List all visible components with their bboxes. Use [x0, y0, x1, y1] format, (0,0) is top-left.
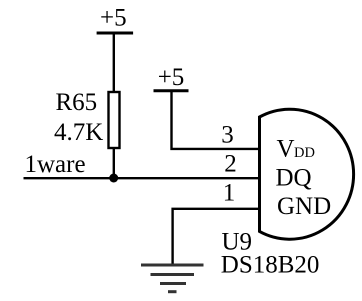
svg-text:+5: +5	[100, 5, 127, 32]
resistor R65	[109, 92, 120, 148]
ground bar 3	[160, 282, 186, 285]
svg-text:2: 2	[224, 151, 237, 178]
svg-text:4.7K: 4.7K	[54, 119, 103, 146]
junction dot	[109, 174, 118, 183]
svg-text:+5: +5	[158, 64, 185, 91]
power +5 bar symbol (VCC2)	[154, 89, 189, 92]
ground bar 1	[141, 264, 204, 267]
svg-text:3: 3	[221, 122, 234, 149]
ground bar 4	[168, 290, 177, 293]
svg-text:V: V	[277, 136, 295, 163]
IC U9 DS18B20 body	[260, 109, 354, 239]
svg-text:1: 1	[223, 180, 236, 207]
ground bar 2	[151, 273, 195, 276]
wire VCC1 to resistor R65	[113, 33, 115, 92]
power +5 bar symbol (VCC1)	[97, 32, 134, 35]
svg-text:DQ: DQ	[276, 165, 312, 192]
svg-text:R65: R65	[56, 89, 98, 116]
wire VCC2 to pin 3	[172, 91, 261, 149]
svg-text:DS18B20: DS18B20	[221, 252, 320, 279]
svg-text:1ware: 1ware	[25, 151, 86, 178]
wire R65 bottom lead	[113, 148, 115, 178]
wire pin 1 to ground	[173, 209, 261, 264]
wire 1ware to pin 2	[24, 177, 261, 179]
pin label VDD	[277, 136, 315, 163]
svg-text:GND: GND	[277, 193, 331, 220]
svg-text:DD: DD	[294, 145, 315, 161]
